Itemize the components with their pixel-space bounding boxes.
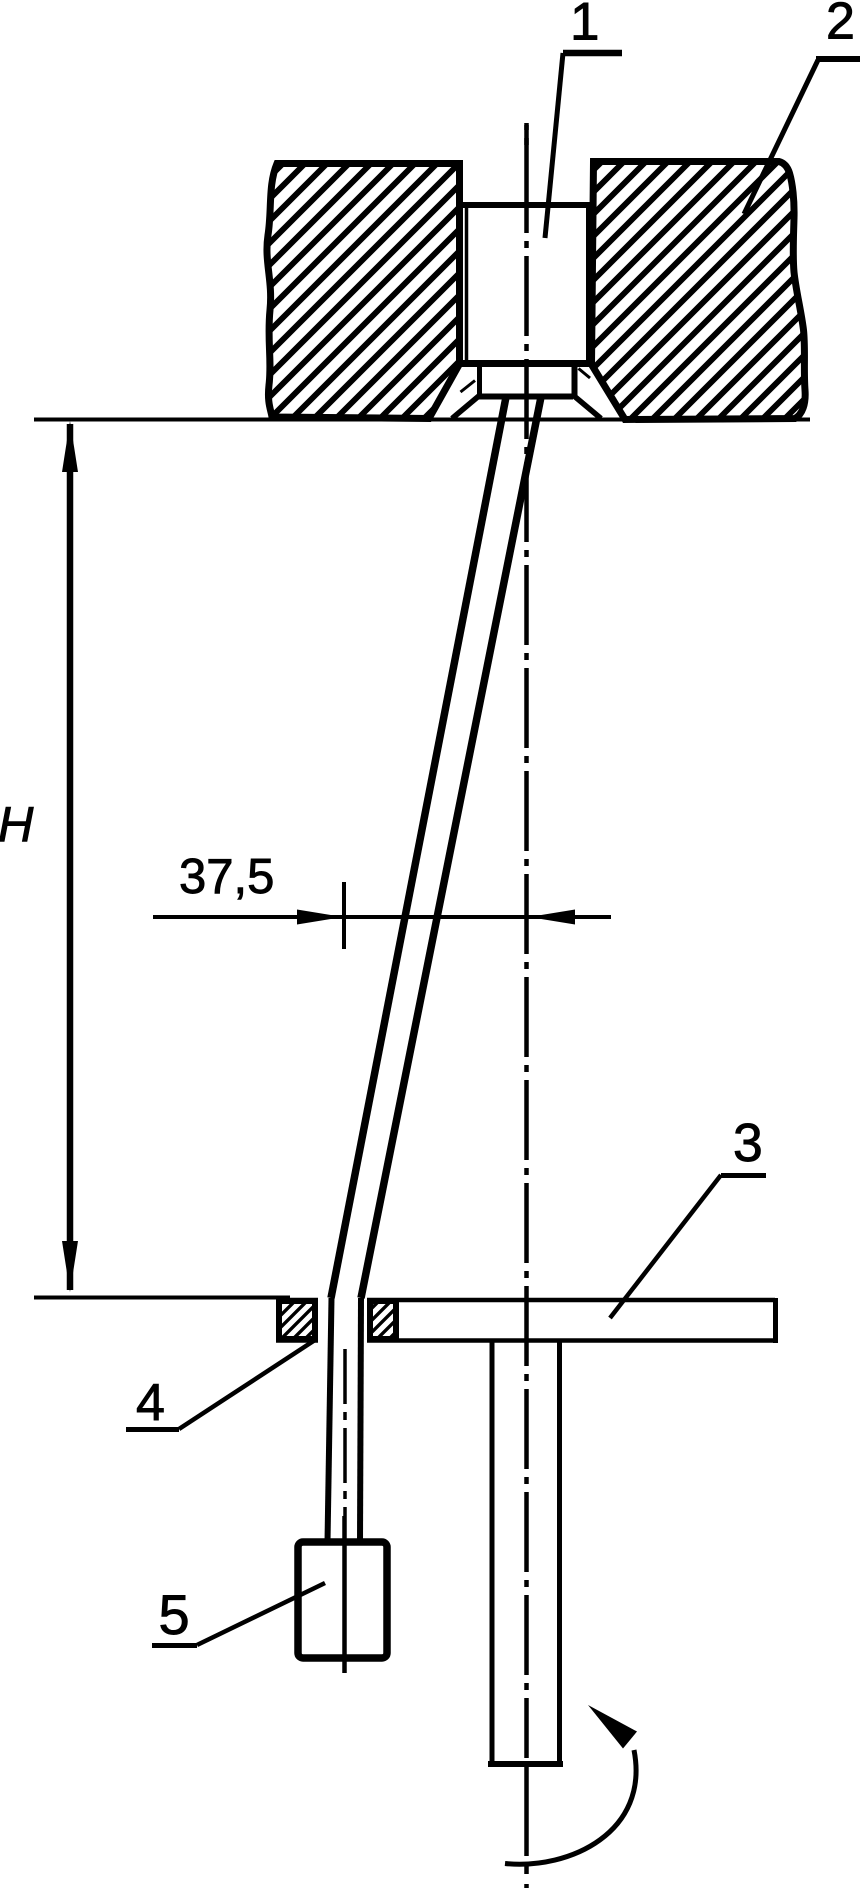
rod left edge	[490, 1341, 495, 1764]
plate top edge	[276, 1298, 318, 1303]
svg-text:4: 4	[136, 1374, 165, 1432]
label 2 underline	[816, 56, 860, 62]
label 3 leader	[610, 1175, 721, 1318]
label 1 leader	[545, 53, 563, 238]
dimension H bottom arrowhead	[62, 1241, 78, 1292]
svg-text:1: 1	[570, 0, 599, 52]
rotation arrowhead	[588, 1705, 637, 1749]
dimension 37,5 right arrowhead	[529, 910, 575, 925]
rotation arrow arc	[505, 1750, 636, 1864]
weight (load) body	[298, 1542, 387, 1658]
clamp bush left (hatched)	[279, 1301, 315, 1339]
die insert bottom edge	[479, 394, 573, 400]
label 2 leader	[744, 60, 818, 214]
label 4 underline	[126, 1427, 179, 1432]
die holder right block (hatched)	[592, 162, 806, 420]
dimension 37,5 line	[153, 915, 611, 919]
label 5 leader	[197, 1583, 325, 1645]
centerline (vertical dash-dot axis)	[524, 123, 529, 153]
thread lower-left line	[328, 1298, 332, 1542]
die cavity right wall	[586, 205, 590, 362]
weight centerline	[343, 1349, 347, 1516]
clamp bush right (hatched)	[370, 1301, 396, 1339]
svg-text:2: 2	[826, 0, 855, 51]
thread upper-left line	[331, 397, 506, 1298]
die holder left block (hatched)	[267, 164, 460, 419]
die insert bottom-right slope	[574, 396, 602, 419]
label 4 leader	[179, 1340, 315, 1429]
label 3 underline	[721, 1173, 766, 1178]
dimension 37,5 left arrowhead	[297, 910, 343, 925]
dimension 37,5 left extension tick	[342, 882, 346, 949]
dimension H top arrowhead	[62, 421, 78, 472]
die bushing shoulder line	[462, 202, 591, 208]
die cavity left wall	[465, 205, 469, 362]
plate bottom edge	[276, 1338, 318, 1343]
rod bottom edge	[488, 1761, 563, 1767]
svg-text:5: 5	[159, 1583, 190, 1646]
die insert right edge	[572, 363, 578, 397]
die bushing channel tick right	[579, 369, 591, 379]
die cavity bottom shoulder	[456, 360, 592, 367]
label 5 underline	[152, 1643, 197, 1648]
rod right edge	[557, 1341, 562, 1764]
dimension H line	[67, 424, 74, 1290]
plate right edge	[773, 1298, 778, 1343]
svg-text:37,5: 37,5	[179, 850, 274, 904]
label 1 underline	[563, 50, 622, 57]
thread upper-right line	[361, 397, 541, 1298]
die bushing channel tick left	[461, 381, 476, 393]
die insert left edge	[477, 363, 482, 396]
die insert bottom-left slope	[452, 395, 480, 419]
plate reference line (H bottom)	[34, 1296, 290, 1300]
thread lower-right line	[360, 1298, 361, 1542]
svg-text:H: H	[0, 798, 34, 852]
base reference line under die	[34, 418, 810, 422]
svg-text:3: 3	[733, 1114, 763, 1173]
